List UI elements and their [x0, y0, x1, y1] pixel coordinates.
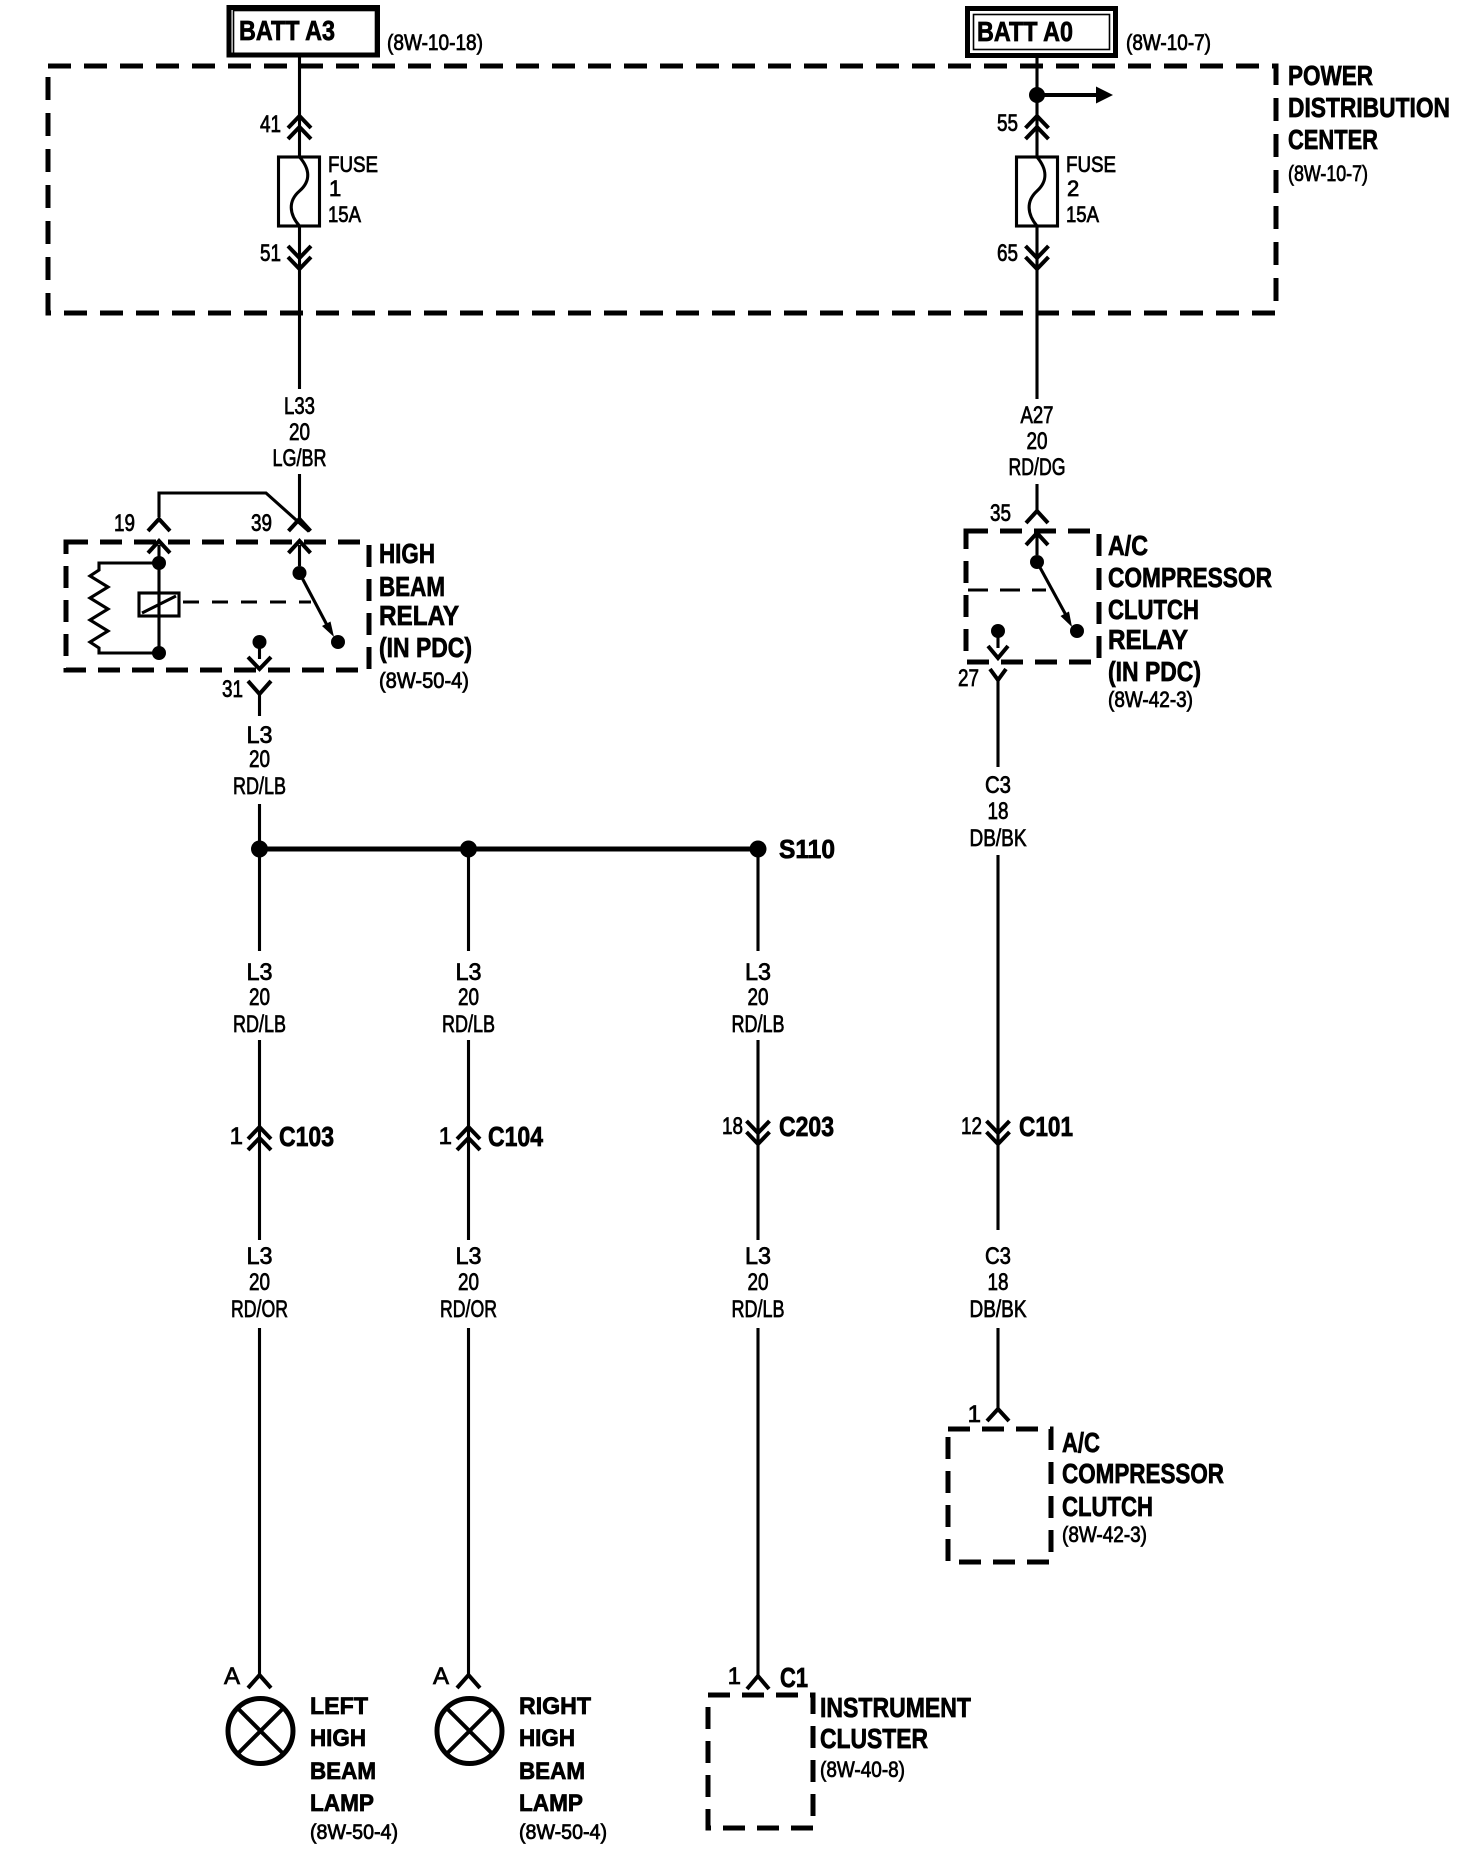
- svg-text:INSTRUMENT: INSTRUMENT: [820, 1692, 971, 1723]
- relay switch common node pin 35: [1026, 533, 1048, 569]
- svg-text:A/C: A/C: [1108, 530, 1148, 561]
- svg-text:HIGH: HIGH: [379, 538, 435, 569]
- svg-text:RD/OR: RD/OR: [231, 1296, 288, 1323]
- pin 41 connector: [260, 111, 311, 139]
- wire jumper pin 39 to pin 19: [159, 493, 309, 532]
- svg-text:RD/LB: RD/LB: [442, 1011, 495, 1038]
- label HIGH BEAM RELAY (IN PDC) (8W-50-4): [379, 538, 472, 693]
- wire splice down column 1: [258, 849, 261, 951]
- svg-text:C1: C1: [780, 1662, 808, 1693]
- svg-text:RIGHT: RIGHT: [519, 1693, 591, 1720]
- pin 55 connector: [997, 110, 1049, 139]
- wire splice down column 3: [756, 849, 759, 951]
- svg-text:18: 18: [722, 1113, 743, 1140]
- svg-text:DISTRIBUTION: DISTRIBUTION: [1288, 92, 1450, 123]
- svg-text:RELAY: RELAY: [379, 600, 459, 631]
- svg-text:15A: 15A: [1066, 202, 1099, 227]
- instrument cluster dashed box: [708, 1695, 813, 1828]
- relay switch contact node: [331, 635, 345, 649]
- connector C103 pin 1: [230, 1121, 334, 1152]
- svg-text:51: 51: [260, 240, 281, 267]
- svg-text:C103: C103: [279, 1121, 334, 1152]
- pin A connector left lamp: [224, 1663, 271, 1690]
- svg-text:18: 18: [988, 1269, 1009, 1296]
- svg-text:19: 19: [114, 510, 135, 537]
- svg-text:12: 12: [961, 1113, 982, 1140]
- svg-text:20: 20: [748, 1269, 769, 1296]
- label INSTRUMENT CLUSTER (8W-40-8): [820, 1692, 971, 1782]
- label A/C COMPRESSOR CLUTCH (8W-42-3): [1062, 1427, 1224, 1547]
- svg-text:1: 1: [329, 176, 341, 201]
- svg-text:1: 1: [439, 1123, 452, 1150]
- svg-text:POWER: POWER: [1288, 60, 1373, 91]
- svg-text:COMPRESSOR: COMPRESSOR: [1108, 562, 1272, 593]
- wire fuse 2 down through PDC border: [1035, 226, 1038, 399]
- svg-text:DB/BK: DB/BK: [970, 1296, 1027, 1323]
- svg-text:2: 2: [1067, 176, 1079, 201]
- svg-text:HIGH: HIGH: [519, 1725, 575, 1752]
- pin 31 connector: [222, 676, 271, 716]
- svg-text:L3: L3: [745, 959, 771, 986]
- svg-text:35: 35: [990, 500, 1011, 527]
- svg-text:15A: 15A: [328, 202, 361, 227]
- svg-text:20: 20: [289, 419, 310, 446]
- svg-text:LEFT: LEFT: [310, 1693, 368, 1720]
- svg-text:DB/BK: DB/BK: [970, 825, 1027, 852]
- svg-text:20: 20: [249, 984, 270, 1011]
- splice node middle: [460, 841, 477, 858]
- wire splice down column 2: [467, 849, 470, 951]
- wire label L3 20 RD/OR column 2: [440, 1243, 497, 1323]
- svg-text:1: 1: [728, 1663, 741, 1690]
- svg-text:A27: A27: [1021, 402, 1054, 429]
- relay coil: [139, 563, 179, 653]
- svg-text:BEAM: BEAM: [519, 1758, 585, 1785]
- right high beam lamp: [437, 1699, 502, 1764]
- svg-text:COMPRESSOR: COMPRESSOR: [1062, 1458, 1224, 1489]
- svg-text:(IN PDC): (IN PDC): [1108, 656, 1201, 687]
- connector box BATT A3: [229, 8, 378, 56]
- wire label L33 20 LG/BR: [273, 393, 327, 472]
- svg-text:65: 65: [997, 240, 1018, 267]
- relay actuator dashed link: [968, 588, 1046, 591]
- relay coil resistor: [90, 563, 159, 653]
- wire L33 to relay pin 39: [298, 474, 301, 519]
- svg-text:C3: C3: [985, 772, 1011, 799]
- svg-text:CENTER: CENTER: [1288, 124, 1378, 155]
- svg-text:20: 20: [1027, 428, 1048, 455]
- svg-text:(8W-50-4): (8W-50-4): [310, 1821, 398, 1844]
- wire pin 27 down: [996, 716, 999, 767]
- svg-text:(8W-10-7): (8W-10-7): [1126, 30, 1211, 55]
- wire label L3 20 RD/LB column 3: [732, 959, 785, 1038]
- pin 27 connector: [958, 665, 1006, 716]
- svg-text:FUSE: FUSE: [1066, 152, 1116, 177]
- wire label L3 20 RD/LB column 1: [233, 959, 286, 1038]
- connector box BATT A0: [968, 9, 1116, 56]
- svg-text:BATT A0: BATT A0: [977, 16, 1073, 47]
- svg-text:HIGH: HIGH: [310, 1725, 366, 1752]
- svg-text:C104: C104: [488, 1121, 543, 1152]
- wire to connector C101: [996, 855, 999, 1230]
- wire fuse 1 down through PDC border: [298, 226, 301, 389]
- svg-text:CLUTCH: CLUTCH: [1108, 594, 1199, 625]
- pin A connector right lamp: [433, 1663, 480, 1690]
- svg-text:RD/LB: RD/LB: [233, 773, 286, 800]
- a/c compressor clutch relay dashed box: [966, 531, 1099, 662]
- svg-text:CLUTCH: CLUTCH: [1062, 1491, 1153, 1522]
- svg-text:LAMP: LAMP: [519, 1790, 583, 1817]
- relay output node pin 27: [988, 624, 1008, 658]
- svg-text:L33: L33: [284, 393, 315, 420]
- svg-text:C203: C203: [779, 1111, 834, 1142]
- label FUSE 2 15A: [1066, 152, 1116, 227]
- high beam relay dashed box: [66, 542, 369, 670]
- svg-text:RD/DG: RD/DG: [1009, 454, 1066, 481]
- label FUSE 1 15A: [328, 152, 378, 227]
- pin 19 connector: [114, 510, 170, 553]
- wire label C3 18 DB/BK lower: [970, 1243, 1027, 1323]
- left high beam lamp: [228, 1699, 293, 1764]
- svg-text:RD/LB: RD/LB: [732, 1296, 785, 1323]
- svg-text:RD/LB: RD/LB: [233, 1011, 286, 1038]
- wire to instrument cluster: [756, 1328, 759, 1676]
- svg-text:41: 41: [260, 111, 281, 138]
- relay actuator dashed link: [183, 600, 311, 603]
- svg-text:C101: C101: [1019, 1111, 1073, 1142]
- svg-text:L3: L3: [745, 1243, 771, 1270]
- pin 65 connector: [997, 240, 1049, 269]
- svg-text:BATT A3: BATT A3: [239, 15, 335, 46]
- fuse F1: [279, 157, 320, 226]
- label A/C COMPRESSOR CLUTCH RELAY (IN PDC) (8W-42-3): [1108, 530, 1272, 712]
- svg-text:55: 55: [997, 110, 1018, 137]
- wire label C3 18 DB/BK: [970, 772, 1027, 852]
- connector C104 pin 1: [439, 1121, 544, 1152]
- junction dot at BATT A0 feed: [1029, 87, 1045, 103]
- wire A27 to relay pin 35: [1035, 484, 1038, 511]
- svg-text:BEAM: BEAM: [310, 1758, 376, 1785]
- svg-text:(8W-50-4): (8W-50-4): [519, 1821, 607, 1844]
- relay switch common node: [293, 545, 307, 580]
- relay coil lower node: [152, 646, 166, 660]
- label LEFT HIGH BEAM LAMP (8W-50-4): [310, 1693, 398, 1844]
- svg-text:39: 39: [251, 510, 272, 537]
- svg-text:RD/OR: RD/OR: [440, 1296, 497, 1323]
- svg-text:20: 20: [748, 984, 769, 1011]
- wire to left high beam lamp: [258, 1328, 261, 1675]
- wire label L3 20 RD/LB column 2: [442, 959, 495, 1038]
- svg-text:(8W-42-3): (8W-42-3): [1108, 687, 1193, 712]
- arrow to other circuits: [1037, 87, 1113, 104]
- svg-text:(8W-40-8): (8W-40-8): [820, 1757, 905, 1782]
- svg-text:CLUSTER: CLUSTER: [820, 1723, 928, 1754]
- svg-text:FUSE: FUSE: [328, 152, 378, 177]
- splice node S110: [750, 841, 767, 858]
- svg-text:20: 20: [249, 746, 270, 773]
- power distribution center dashed box: [48, 66, 1276, 313]
- splice S110 bus wire: [260, 847, 759, 852]
- svg-text:(8W-50-4): (8W-50-4): [379, 668, 469, 693]
- svg-text:A: A: [224, 1663, 240, 1690]
- splice node left: [251, 841, 268, 858]
- wire pin 31 feed above splice: [258, 804, 261, 849]
- wire label L3 20 RD/LB (pin31): [233, 722, 286, 800]
- pin 51 connector: [260, 240, 311, 269]
- pin 1 connector of A/C clutch: [968, 1401, 1009, 1428]
- svg-text:RD/LB: RD/LB: [732, 1011, 785, 1038]
- svg-text:LG/BR: LG/BR: [273, 445, 327, 472]
- svg-text:20: 20: [458, 984, 479, 1011]
- wire to connector column 1: [258, 1040, 261, 1240]
- relay coil branch node: [157, 545, 160, 563]
- svg-text:L3: L3: [247, 1243, 273, 1270]
- pin 35 connector: [990, 500, 1048, 527]
- svg-text:20: 20: [458, 1269, 479, 1296]
- connector C1 pin 1: [728, 1662, 808, 1693]
- wire to right high beam lamp: [467, 1328, 470, 1675]
- svg-text:(8W-10-7): (8W-10-7): [1288, 161, 1368, 186]
- svg-text:S110: S110: [779, 834, 835, 864]
- svg-text:18: 18: [988, 798, 1009, 825]
- svg-text:1: 1: [230, 1123, 243, 1150]
- svg-text:(8W-10-18): (8W-10-18): [387, 30, 483, 55]
- label POWER DISTRIBUTION CENTER: [1288, 60, 1450, 186]
- svg-text:C3: C3: [985, 1243, 1011, 1270]
- svg-text:31: 31: [222, 676, 243, 703]
- svg-text:L3: L3: [247, 959, 273, 986]
- relay output node pin 31: [248, 635, 271, 669]
- relay switch arm: [1037, 562, 1072, 627]
- svg-text:27: 27: [958, 665, 979, 692]
- svg-text:L3: L3: [456, 1243, 482, 1270]
- wire to connector column 3: [756, 1040, 759, 1240]
- svg-text:20: 20: [249, 1269, 270, 1296]
- svg-text:(8W-42-3): (8W-42-3): [1062, 1522, 1147, 1547]
- wire BATT A3 to fuse 1: [298, 57, 301, 157]
- a/c compressor clutch dashed box: [948, 1429, 1051, 1562]
- wire label A27 20 RD/DG: [1009, 402, 1066, 481]
- label RIGHT HIGH BEAM LAMP (8W-50-4): [519, 1693, 607, 1844]
- svg-text:RELAY: RELAY: [1108, 624, 1188, 655]
- svg-text:A/C: A/C: [1062, 1427, 1100, 1458]
- wire to connector column 2: [467, 1040, 470, 1240]
- svg-text:A: A: [433, 1663, 449, 1690]
- svg-text:BEAM: BEAM: [379, 571, 445, 602]
- svg-text:L3: L3: [247, 722, 273, 749]
- pin 39 connector: [251, 510, 311, 553]
- connector C101 pin 12: [961, 1111, 1073, 1144]
- svg-text:1: 1: [968, 1401, 981, 1428]
- relay switch contact node: [1070, 624, 1084, 638]
- fuse F2: [1017, 157, 1058, 226]
- connector C203 pin 18: [722, 1111, 834, 1144]
- wire label L3 20 RD/OR column 1: [231, 1243, 288, 1323]
- wire BATT A0 to fuse 2: [1035, 58, 1038, 157]
- wire to A/C compressor clutch: [996, 1328, 999, 1409]
- svg-text:LAMP: LAMP: [310, 1790, 374, 1817]
- wire label L3 20 RD/LB column 3: [732, 1243, 785, 1323]
- svg-text:L3: L3: [456, 959, 482, 986]
- relay switch arm: [300, 573, 335, 637]
- svg-text:(IN PDC): (IN PDC): [379, 632, 472, 663]
